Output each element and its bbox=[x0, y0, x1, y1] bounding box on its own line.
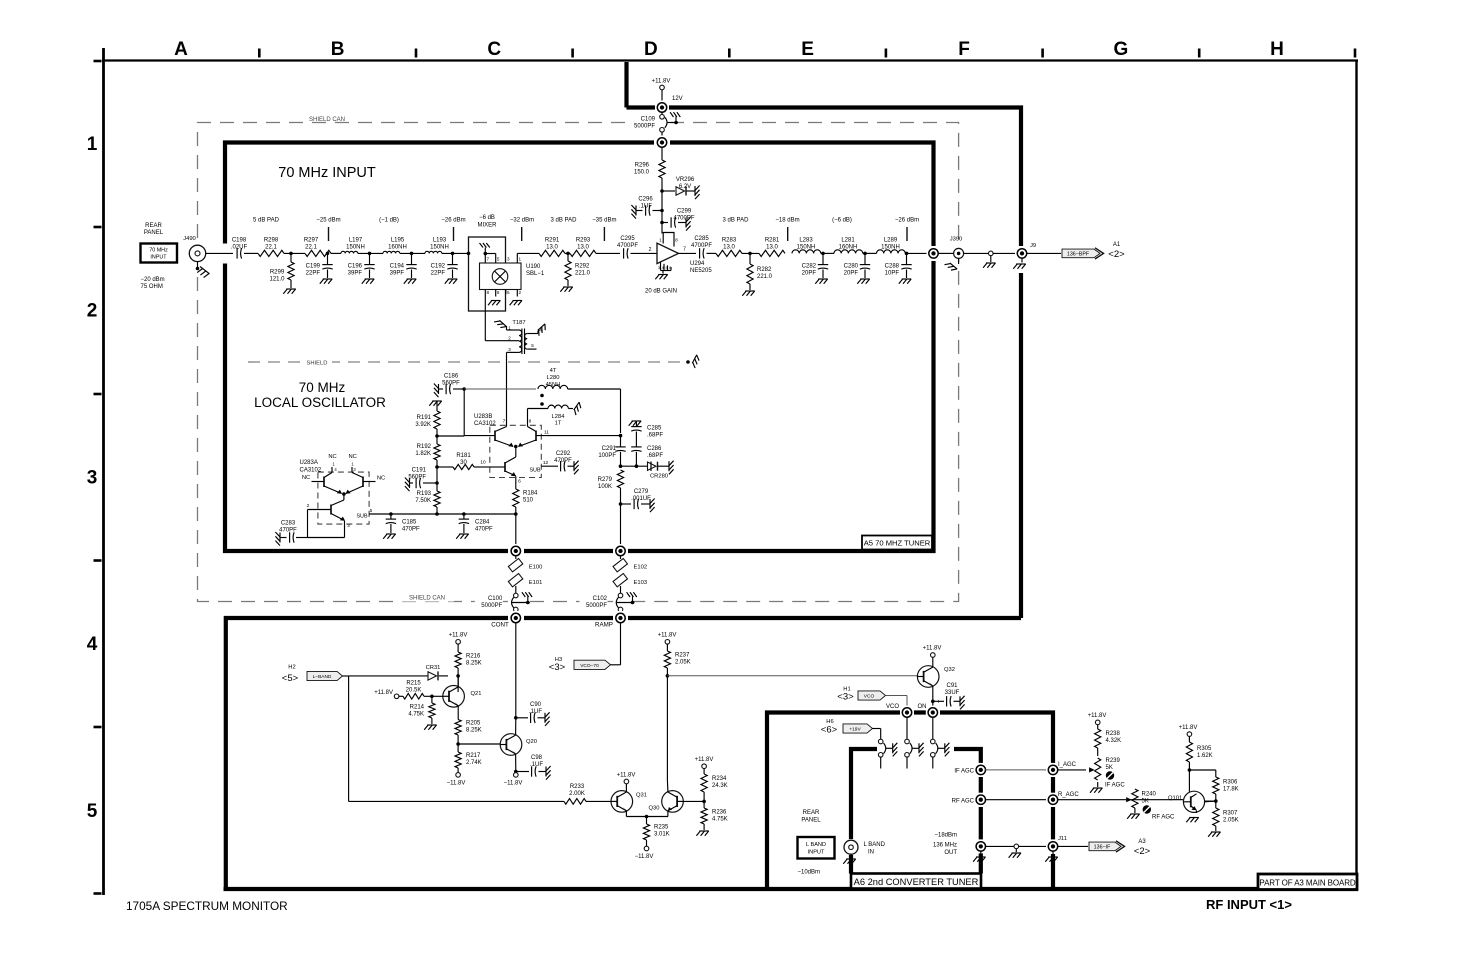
svg-text:(−6 dB): (−6 dB) bbox=[832, 218, 852, 224]
svg-text:2.74K: 2.74K bbox=[466, 760, 482, 766]
mixer U190 outer box bbox=[469, 237, 506, 311]
svg-text:+19V: +19V bbox=[849, 727, 861, 733]
svg-text:+11.8V: +11.8V bbox=[1179, 725, 1198, 731]
capacitor C192 bbox=[452, 253, 454, 264]
svg-text:C285: C285 bbox=[647, 426, 662, 432]
svg-text:−10dBm: −10dBm bbox=[798, 870, 821, 876]
svg-text:11: 11 bbox=[544, 430, 549, 436]
wire bbox=[596, 252, 620, 254]
svg-text:.68PF: .68PF bbox=[647, 433, 663, 439]
wire bbox=[938, 252, 953, 254]
svg-text:E: E bbox=[801, 39, 814, 60]
inductor L284 bbox=[528, 408, 549, 410]
svg-text:24.3K: 24.3K bbox=[712, 783, 728, 789]
flag 136-BPF bbox=[1062, 249, 1100, 258]
svg-text:2: 2 bbox=[508, 336, 511, 341]
wire bbox=[1019, 845, 1049, 847]
svg-text:C198: C198 bbox=[232, 238, 247, 244]
svg-text:A3: A3 bbox=[1138, 839, 1146, 845]
resistor R191 bbox=[429, 401, 442, 406]
svg-text:5000PF: 5000PF bbox=[586, 603, 607, 609]
svg-text:H2: H2 bbox=[288, 665, 295, 671]
wire to Q32 bbox=[667, 675, 917, 677]
feedthrough R_AGC bbox=[1046, 793, 1060, 807]
svg-text:R205: R205 bbox=[466, 721, 481, 727]
svg-text:PANEL: PANEL bbox=[144, 230, 164, 236]
svg-text:C91: C91 bbox=[946, 683, 958, 689]
svg-text:4700PF: 4700PF bbox=[691, 243, 712, 249]
wire CONT line bbox=[515, 623, 517, 718]
svg-text:Q101: Q101 bbox=[1168, 796, 1182, 802]
resistor R193 bbox=[436, 467, 438, 491]
wire RAMP bbox=[620, 623, 622, 665]
svg-text:<6>: <6> bbox=[821, 725, 838, 736]
wire pin2 bbox=[307, 510, 309, 538]
svg-text:70 MHz: 70 MHz bbox=[149, 248, 168, 254]
wire bbox=[631, 252, 658, 254]
svg-text:R298: R298 bbox=[264, 238, 279, 244]
svg-text:<5>: <5> bbox=[282, 673, 299, 684]
svg-text:C292: C292 bbox=[556, 451, 571, 457]
wire bbox=[1058, 845, 1088, 847]
resistor R216 bbox=[457, 644, 459, 652]
feedthrough A6 lid bbox=[931, 739, 936, 744]
node bbox=[514, 770, 518, 774]
inductor L281 bbox=[834, 250, 863, 254]
svg-text:VCO−70: VCO−70 bbox=[580, 663, 599, 669]
capacitor C282 bbox=[822, 253, 824, 264]
svg-text:7: 7 bbox=[487, 257, 490, 262]
svg-text:R282: R282 bbox=[757, 267, 772, 273]
node bbox=[619, 464, 623, 468]
wire R_AGC bbox=[986, 799, 1049, 801]
wire bbox=[1027, 252, 1061, 254]
svg-text:560PF: 560PF bbox=[442, 381, 460, 387]
svg-text:RF AGC: RF AGC bbox=[1152, 815, 1175, 821]
svg-text:A6 2nd CONVERTER TUNER: A6 2nd CONVERTER TUNER bbox=[854, 877, 979, 887]
svg-text:(−1 dB): (−1 dB) bbox=[379, 218, 399, 224]
PART OF A3 MAIN BOARD label box bbox=[1258, 874, 1357, 890]
svg-text:D: D bbox=[644, 39, 658, 60]
border frame top line bbox=[102, 59, 1358, 61]
screwdriver adjust IF AGC bbox=[1106, 771, 1114, 779]
svg-text:RF AGC: RF AGC bbox=[952, 798, 975, 804]
svg-text:SUB: SUB bbox=[529, 468, 540, 474]
wire bbox=[343, 675, 349, 677]
resistor R279 bbox=[617, 470, 623, 488]
T187 pin4 ground bbox=[536, 324, 549, 336]
svg-text:C199: C199 bbox=[306, 264, 321, 270]
feedthrough VCO bbox=[900, 706, 914, 720]
wire bbox=[1058, 799, 1184, 801]
transistor Q101 bbox=[1183, 791, 1204, 812]
node bbox=[435, 465, 439, 469]
node bbox=[619, 434, 623, 438]
resistor R307 bbox=[1213, 808, 1219, 826]
feedthrough RF AGC bbox=[974, 793, 988, 807]
resistor R305 bbox=[1187, 732, 1192, 737]
svg-text:C: C bbox=[487, 39, 501, 60]
resistor R214 bbox=[431, 696, 433, 703]
svg-text:5: 5 bbox=[497, 257, 500, 262]
svg-text:C284: C284 bbox=[475, 520, 490, 526]
node bbox=[1214, 799, 1218, 803]
zener VR296 bbox=[662, 190, 675, 192]
transistor U283A right bbox=[362, 477, 364, 488]
svg-text:VR296: VR296 bbox=[676, 177, 695, 183]
svg-text:1705A SPECTRUM MONITOR: 1705A SPECTRUM MONITOR bbox=[126, 899, 288, 913]
svg-text:R184: R184 bbox=[523, 491, 538, 497]
terminal +11.8V bbox=[660, 85, 665, 90]
svg-text:1T: 1T bbox=[555, 421, 562, 427]
svg-text:ON: ON bbox=[918, 704, 927, 710]
svg-text:L BAND: L BAND bbox=[864, 842, 886, 848]
node bbox=[702, 800, 706, 804]
node bbox=[451, 252, 455, 256]
node bbox=[430, 695, 434, 699]
terminal +11.8V R216 bbox=[456, 640, 461, 645]
svg-text:39PF: 39PF bbox=[390, 271, 405, 277]
svg-text:L280: L280 bbox=[547, 375, 560, 381]
connector J9 bbox=[1015, 246, 1029, 260]
wire bbox=[515, 718, 517, 735]
wire bbox=[964, 252, 989, 254]
A3 main board top edge bbox=[226, 618, 1021, 889]
svg-text:100K: 100K bbox=[598, 484, 612, 490]
svg-text:H: H bbox=[1270, 39, 1284, 60]
node bbox=[742, 252, 759, 254]
ferrite bead E102 bbox=[613, 559, 627, 572]
svg-text:C194: C194 bbox=[390, 264, 405, 270]
phase dot bbox=[540, 402, 544, 406]
svg-text:100PF: 100PF bbox=[598, 453, 616, 459]
svg-text:7: 7 bbox=[503, 419, 506, 425]
inductor L197 bbox=[341, 251, 358, 253]
svg-text:J11: J11 bbox=[1058, 836, 1067, 842]
wire Q32 emitter bbox=[932, 686, 934, 707]
resistor R306 bbox=[1215, 770, 1217, 777]
svg-text:C291: C291 bbox=[602, 446, 617, 452]
wire Q30 bbox=[666, 780, 669, 792]
wire amp out bbox=[679, 252, 697, 254]
thick boundary 12V wall bbox=[627, 62, 1022, 618]
feedthrough capacitor C100 bbox=[514, 593, 519, 598]
svg-text:1: 1 bbox=[87, 134, 98, 155]
resistor R237 bbox=[666, 644, 668, 651]
svg-text:560PF: 560PF bbox=[408, 475, 426, 481]
svg-text:1.62K: 1.62K bbox=[1197, 753, 1213, 759]
svg-text:.001UF: .001UF bbox=[631, 496, 651, 502]
svg-text:PANEL: PANEL bbox=[801, 818, 821, 824]
svg-text:70 MHz: 70 MHz bbox=[299, 380, 346, 395]
flag L-BAND bbox=[307, 671, 343, 680]
node bbox=[863, 252, 877, 254]
resistor R205 bbox=[455, 720, 461, 735]
svg-text:8: 8 bbox=[675, 238, 678, 244]
capacitor C279 bbox=[621, 503, 632, 505]
svg-text:R305: R305 bbox=[1197, 746, 1212, 752]
svg-text:L197: L197 bbox=[349, 238, 363, 244]
svg-text:510: 510 bbox=[523, 498, 534, 504]
capacitor C283 bbox=[296, 537, 308, 539]
svg-text:+11.8V: +11.8V bbox=[658, 633, 677, 639]
svg-text:3.01K: 3.01K bbox=[654, 832, 670, 838]
node bbox=[905, 252, 929, 254]
connector L BAND IN bbox=[843, 839, 859, 855]
svg-text:C288: C288 bbox=[885, 264, 900, 270]
svg-text:75 OHM: 75 OHM bbox=[141, 284, 163, 290]
node bbox=[284, 252, 305, 254]
svg-text:150.0: 150.0 bbox=[634, 170, 650, 176]
node bbox=[1188, 768, 1192, 772]
svg-text:13.0: 13.0 bbox=[723, 245, 735, 251]
wire bbox=[661, 132, 663, 138]
svg-text:L193: L193 bbox=[433, 238, 447, 244]
svg-text:20.5K: 20.5K bbox=[406, 688, 422, 694]
wire bbox=[620, 586, 622, 593]
svg-text:SHIELD: SHIELD bbox=[307, 361, 328, 367]
svg-text:T187: T187 bbox=[512, 320, 525, 326]
flag 136-IF bbox=[1089, 842, 1121, 851]
svg-text:C296: C296 bbox=[638, 197, 653, 203]
resistor R291 bbox=[539, 250, 565, 256]
mixer input node bbox=[467, 252, 471, 256]
svg-text:R181: R181 bbox=[456, 453, 471, 459]
node bbox=[456, 742, 460, 746]
mixer pin1 stub bbox=[516, 253, 518, 263]
svg-text:39PF: 39PF bbox=[348, 271, 363, 277]
svg-text:3: 3 bbox=[87, 468, 98, 489]
svg-text:LOCAL OSCILLATOR: LOCAL OSCILLATOR bbox=[254, 395, 386, 410]
svg-text:J390: J390 bbox=[950, 237, 963, 243]
svg-text:CA3102: CA3102 bbox=[300, 468, 322, 474]
resistor R238 bbox=[1095, 720, 1100, 725]
node bbox=[821, 252, 834, 254]
feedthrough A6 lid bbox=[905, 739, 910, 744]
svg-text:4: 4 bbox=[87, 634, 98, 655]
connector J390 bbox=[954, 248, 964, 258]
svg-text:.02UF: .02UF bbox=[231, 245, 248, 251]
node bbox=[435, 481, 439, 485]
svg-text:R291: R291 bbox=[545, 238, 560, 244]
wire bbox=[661, 90, 663, 102]
wire bbox=[993, 252, 1017, 254]
svg-text:R237: R237 bbox=[675, 653, 690, 659]
jack pair bbox=[1014, 844, 1019, 849]
svg-text:136−BPF: 136−BPF bbox=[1067, 251, 1090, 257]
svg-text:5: 5 bbox=[531, 343, 534, 348]
svg-text:<2>: <2> bbox=[1134, 846, 1151, 857]
node bbox=[342, 492, 346, 496]
inductor L283 bbox=[792, 250, 821, 254]
node bbox=[666, 674, 670, 678]
svg-text:L289: L289 bbox=[884, 238, 898, 244]
svg-text:2.05K: 2.05K bbox=[1223, 818, 1239, 824]
svg-text:3: 3 bbox=[507, 257, 510, 262]
capacitor C98 bbox=[516, 771, 529, 773]
resistor R181 bbox=[437, 466, 453, 468]
node bbox=[619, 502, 623, 506]
svg-text:SHIELD CAN: SHIELD CAN bbox=[409, 596, 445, 602]
svg-text:150NH: 150NH bbox=[346, 245, 365, 251]
flag +19V bbox=[843, 724, 873, 733]
svg-text:R216: R216 bbox=[466, 654, 481, 660]
svg-text:A1: A1 bbox=[1113, 242, 1121, 248]
feedthrough I_AGC bbox=[1046, 763, 1060, 777]
node bbox=[368, 252, 372, 256]
svg-text:R217: R217 bbox=[466, 753, 481, 759]
svg-text:.1UF: .1UF bbox=[639, 204, 652, 210]
svg-text:R233: R233 bbox=[570, 784, 585, 790]
wire bbox=[244, 252, 258, 254]
svg-text:R193: R193 bbox=[417, 491, 432, 497]
wire bbox=[1058, 769, 1086, 771]
inductor L193 bbox=[425, 251, 442, 253]
varactor CR280 bbox=[648, 462, 657, 470]
svg-text:C90: C90 bbox=[530, 702, 542, 708]
svg-text:10PF: 10PF bbox=[885, 271, 900, 277]
svg-text:22PF: 22PF bbox=[306, 271, 321, 277]
capacitor C292 bbox=[541, 465, 558, 467]
svg-text:C192: C192 bbox=[431, 264, 446, 270]
svg-text:1: 1 bbox=[659, 238, 662, 244]
feedthrough CONT/RAMP bbox=[509, 611, 523, 625]
svg-text:IN: IN bbox=[868, 850, 874, 856]
svg-text:−18dBm: −18dBm bbox=[934, 833, 957, 839]
svg-text:R_AGC: R_AGC bbox=[1058, 792, 1079, 798]
svg-text:+11.8V: +11.8V bbox=[652, 79, 671, 85]
wire bbox=[568, 388, 621, 390]
resistor R296 bbox=[659, 160, 665, 178]
U294 top pin loop bbox=[663, 233, 674, 247]
terminal +11.8V R234 bbox=[702, 764, 707, 769]
capacitor C191 bbox=[409, 478, 411, 488]
inner converter boundary box bbox=[767, 713, 1053, 890]
svg-text:−11.8V: −11.8V bbox=[635, 854, 654, 860]
svg-text:U283B: U283B bbox=[474, 414, 492, 420]
border frame right line bbox=[1355, 61, 1357, 890]
svg-text:REAR: REAR bbox=[803, 810, 820, 816]
ferrite bead E103 bbox=[613, 574, 627, 587]
node bbox=[456, 674, 460, 678]
svg-text:L BAND: L BAND bbox=[806, 842, 826, 848]
svg-text:3: 3 bbox=[508, 347, 511, 352]
capacitor C280 bbox=[864, 253, 866, 264]
capacitor C196 bbox=[369, 253, 371, 264]
capacitor C194 bbox=[411, 253, 413, 264]
svg-text:L195: L195 bbox=[391, 238, 405, 244]
wire bbox=[464, 388, 536, 390]
flag VCO-70 bbox=[574, 660, 611, 669]
svg-text:VCO: VCO bbox=[886, 704, 899, 710]
svg-text:L284: L284 bbox=[552, 414, 566, 420]
wire bbox=[515, 586, 517, 593]
svg-text:136−IF: 136−IF bbox=[1094, 844, 1111, 850]
potentiometer R240 bbox=[1126, 797, 1132, 802]
A5 70 MHZ TUNER label box bbox=[862, 536, 932, 550]
A6 tuner box bbox=[851, 749, 981, 874]
svg-text:160NH: 160NH bbox=[388, 245, 407, 251]
svg-text:NC: NC bbox=[377, 476, 385, 482]
svg-text:5000PF: 5000PF bbox=[481, 603, 502, 609]
svg-text:4T: 4T bbox=[550, 368, 557, 374]
svg-text:Q21: Q21 bbox=[471, 691, 482, 697]
svg-text:12: 12 bbox=[543, 460, 549, 466]
svg-text:4.75K: 4.75K bbox=[408, 712, 424, 718]
wire mixer to T187 bbox=[484, 290, 486, 341]
capacitor C291 bbox=[620, 436, 622, 447]
svg-text:470PF: 470PF bbox=[279, 528, 297, 534]
svg-text:J490: J490 bbox=[183, 236, 196, 242]
wire bbox=[620, 556, 622, 559]
svg-text:5 dB PAD: 5 dB PAD bbox=[253, 218, 280, 224]
svg-text:20PF: 20PF bbox=[844, 271, 859, 277]
svg-text:R281: R281 bbox=[765, 238, 780, 244]
ferrite bead E100 bbox=[508, 559, 522, 572]
transistor Q32 bbox=[917, 666, 939, 688]
svg-text:−35 dBm: −35 dBm bbox=[592, 218, 616, 224]
svg-text:IF AGC: IF AGC bbox=[1105, 783, 1125, 789]
svg-text:A5 70 MHZ TUNER: A5 70 MHZ TUNER bbox=[864, 539, 931, 548]
wire bbox=[906, 717, 908, 739]
70 MHz INPUT rear panel box bbox=[141, 244, 178, 263]
transistor U283A lower bbox=[330, 505, 332, 515]
node bbox=[410, 252, 414, 256]
feedthrough on tuner lid bbox=[655, 136, 669, 150]
svg-text:−11.8V: −11.8V bbox=[447, 781, 466, 787]
connector J11 bbox=[1046, 839, 1060, 853]
svg-text:C98: C98 bbox=[531, 755, 543, 761]
svg-text:RAMP: RAMP bbox=[595, 622, 613, 629]
svg-text:L−BAND: L−BAND bbox=[313, 674, 332, 680]
mixer case ground bbox=[484, 248, 486, 264]
svg-text:R307: R307 bbox=[1223, 811, 1238, 817]
capacitor C186 bbox=[438, 384, 440, 394]
L BAND INPUT box bbox=[798, 837, 835, 859]
svg-text:Q30: Q30 bbox=[649, 806, 660, 812]
node bbox=[565, 252, 570, 254]
flag VCO bbox=[858, 691, 886, 700]
J490 ground bbox=[197, 262, 199, 269]
wire bbox=[457, 676, 459, 687]
svg-text:8.25K: 8.25K bbox=[466, 728, 482, 734]
svg-text:221.0: 221.0 bbox=[757, 274, 773, 280]
resistor R297 bbox=[305, 250, 331, 256]
U294 bottom pins bbox=[660, 262, 662, 270]
feedthrough tuner wall bbox=[927, 246, 941, 260]
wire bbox=[515, 612, 517, 614]
svg-text:13.0: 13.0 bbox=[546, 245, 558, 251]
svg-text:17.8K: 17.8K bbox=[1223, 787, 1239, 793]
svg-text:4.32K: 4.32K bbox=[1106, 738, 1122, 744]
svg-text:4700PF: 4700PF bbox=[617, 243, 638, 249]
svg-text:2.05K: 2.05K bbox=[675, 660, 691, 666]
capacitor C285 bbox=[699, 248, 701, 258]
svg-text:20PF: 20PF bbox=[802, 271, 817, 277]
svg-text:5: 5 bbox=[370, 508, 373, 514]
svg-text:221.0: 221.0 bbox=[575, 271, 591, 277]
capacitor C198 bbox=[236, 248, 238, 258]
svg-text:PART OF A3 MAIN BOARD: PART OF A3 MAIN BOARD bbox=[1259, 879, 1355, 888]
node bbox=[435, 434, 439, 438]
svg-text:A: A bbox=[174, 39, 188, 60]
feedthrough capacitor C109 bbox=[660, 115, 665, 120]
node bbox=[514, 445, 518, 449]
svg-text:E103: E103 bbox=[634, 580, 648, 586]
svg-text:C286: C286 bbox=[647, 446, 662, 452]
wire mixer out bbox=[517, 252, 539, 254]
node bbox=[389, 512, 393, 516]
